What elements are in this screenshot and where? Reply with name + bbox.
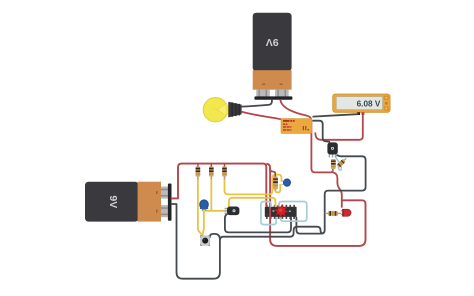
wire: red LED stub: [341, 200, 343, 207]
wire: red S from R4 bottom to LED row: [333, 172, 342, 200]
note label (orange): [281, 119, 312, 134]
wire: black Q1 to IC: [225, 214, 291, 233]
resistor R6 (below Q2, vertical): [331, 159, 336, 172]
wire: yellow R2 down: [210, 178, 212, 211]
wire: black bulb to battery1 cap: [242, 100, 272, 107]
wire: yellow R1 to pushbutton: [198, 178, 202, 236]
wire: black battery2- big loop to IC area: [172, 204, 323, 279]
damaged star on IC: [273, 204, 291, 217]
wire: yellow Q1 to IC: [229, 198, 276, 207]
wire: light blue IC left loop: [261, 202, 276, 225]
wire: black loop branch to pushbutton: [210, 234, 220, 240]
wire: yellow small resistor to LED2: [275, 185, 280, 193]
LED D3 (red): [341, 209, 351, 216]
pushbutton S1: [200, 235, 210, 245]
svg-text:6.08 V: 6.08 V: [357, 100, 381, 109]
wire: light blue IC right loop: [279, 202, 307, 222]
LED D1 (blue): [200, 200, 209, 211]
wire: red from battery1 cap to note and down to R4: [280, 100, 333, 172]
wire: red bus branch to IC region and bottom loop: [267, 164, 365, 246]
svg-text:9V: 9V: [266, 36, 279, 48]
battery BAT1 (9V, rotated 180): [253, 13, 293, 100]
wire: red multimeter to note: [315, 115, 363, 140]
small resistor R5 (by IC): [273, 173, 278, 192]
wire: black Q2 loop to resistor R7 and IC: [296, 155, 365, 233]
wire: black note to transistor Q2: [313, 121, 329, 142]
battery BAT2 (9V, rotated 90): [85, 182, 172, 222]
resistor R7 (bottom right, horizontal): [325, 211, 342, 216]
transistor Q2: [327, 142, 337, 157]
light bulb L1 (lit): [203, 98, 241, 122]
wire: light blue Q2 hook: [335, 157, 341, 171]
resistor R2: [209, 164, 214, 180]
wire: red bulb to note: [242, 112, 285, 121]
resistor R3: [222, 164, 227, 180]
wire: yellow LED1 to transistor Q1: [206, 210, 226, 212]
wire: red bus from battery2+: [172, 164, 267, 206]
svg-text:9V: 9V: [107, 195, 119, 208]
IC U1 (DIP-16, damaged): [265, 205, 297, 219]
resistor R8 (below Q2, angled): [336, 157, 347, 168]
wire: yellow R3 loop to blue LED2: [225, 175, 282, 195]
transistor Q1: [225, 207, 240, 216]
wire: red stub bus to small resistor: [270, 169, 275, 178]
LED D2 (blue, by IC): [282, 179, 291, 186]
resistor R1: [196, 164, 201, 180]
wire: black note to multimeter: [313, 114, 358, 116]
multimeter M1 (6.08 V): [333, 94, 390, 115]
wire: yellow LED1 leg to pushbutton: [203, 211, 204, 236]
